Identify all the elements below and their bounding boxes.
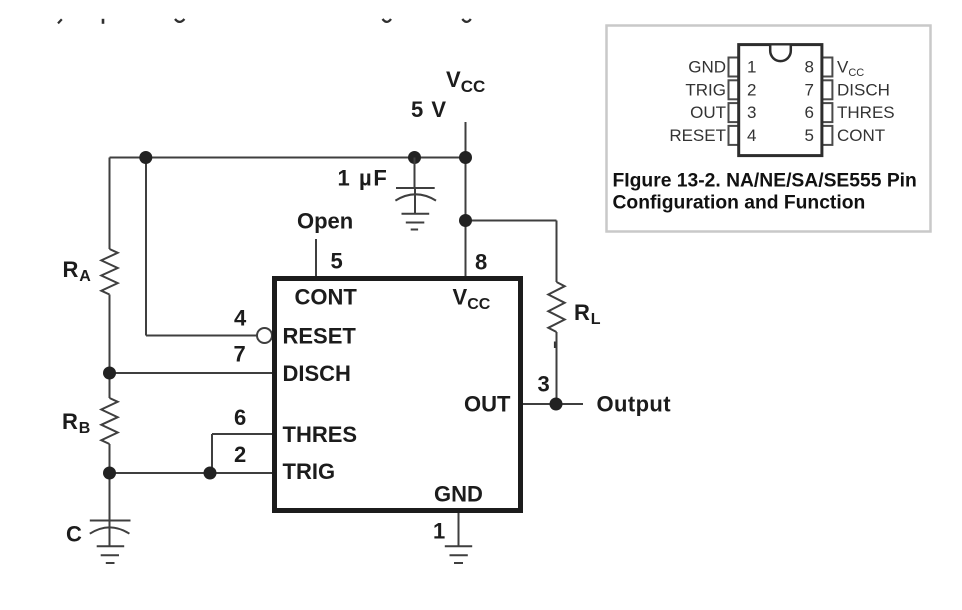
wire RL bottom <box>556 332 558 404</box>
wire reset branch vertical <box>145 158 147 336</box>
capacitor 1uF curved plate <box>395 194 436 200</box>
capacitor 1uF top plate <box>396 187 435 189</box>
svg-text:TRIG: TRIG <box>685 80 726 99</box>
resistor RA <box>101 249 117 295</box>
svg-text:RESET: RESET <box>669 126 726 145</box>
wire reset branch horizontal <box>146 335 257 337</box>
node OUT junction <box>550 398 563 411</box>
svg-text:CONT: CONT <box>837 126 885 145</box>
svg-text:RESET: RESET <box>283 324 357 349</box>
svg-text:8: 8 <box>805 58 814 77</box>
node rl junction <box>459 214 472 227</box>
IC 555 box U1 <box>275 279 521 511</box>
wire top VCC rail <box>110 157 466 159</box>
svg-text:GND: GND <box>434 482 483 507</box>
capacitor 1uF stem <box>414 188 416 214</box>
svg-text:Open: Open <box>297 209 353 234</box>
svg-text:C: C <box>66 522 82 547</box>
svg-text:GND: GND <box>688 58 726 77</box>
ground pin1 <box>445 546 472 563</box>
svg-text:OUT: OUT <box>690 103 726 122</box>
svg-text:2: 2 <box>234 442 246 467</box>
svg-text:1: 1 <box>747 58 756 77</box>
ground under C <box>97 546 125 563</box>
capacitor C top plate <box>90 520 131 522</box>
wire cap branch <box>414 158 416 189</box>
node top-left junction <box>139 151 152 164</box>
svg-text:6: 6 <box>805 103 814 122</box>
resistor RL <box>548 282 564 332</box>
svg-text:DISCH: DISCH <box>837 80 890 99</box>
svg-text:OUT: OUT <box>464 392 511 417</box>
svg-text:3: 3 <box>747 103 756 122</box>
svg-text:5: 5 <box>805 126 814 145</box>
DIP package pin stubs right <box>822 58 833 145</box>
svg-text:6: 6 <box>234 405 246 430</box>
svg-text:7: 7 <box>805 80 814 99</box>
wire THRES-TRIG link <box>211 434 213 473</box>
wire OUT pin3 <box>523 403 583 405</box>
svg-text:5: 5 <box>331 249 343 274</box>
svg-text:4: 4 <box>234 306 247 331</box>
cropped text fragment 5 <box>462 19 471 22</box>
svg-text:7: 7 <box>234 342 246 367</box>
DIP notch <box>770 46 791 62</box>
node TRIG left junction <box>103 467 116 480</box>
wire RL top <box>556 221 558 283</box>
wire left rail upper <box>109 158 111 250</box>
wire VCC drop <box>465 122 467 276</box>
reset bubble <box>257 328 272 343</box>
ground under 1uF <box>402 214 430 230</box>
capacitor C curved plate <box>90 527 130 533</box>
wire TRIG pin2 <box>110 472 273 474</box>
wire RL branch horizontal <box>466 220 557 222</box>
svg-text:DISCH: DISCH <box>283 361 351 386</box>
resistor RB <box>101 398 117 444</box>
node DISCH junction <box>103 367 116 380</box>
DIP package body <box>739 45 822 156</box>
wire DISCH pin7 <box>110 372 273 374</box>
wire left rail lower <box>109 444 111 521</box>
svg-text:1: 1 <box>433 519 445 544</box>
svg-text:2: 2 <box>747 80 756 99</box>
node rail-vcc junction <box>459 151 472 164</box>
node rail-cap junction <box>408 151 421 164</box>
wire pin5 <box>315 239 317 276</box>
pin-config panel frame <box>607 26 931 232</box>
wire RL bottom nub <box>554 342 557 349</box>
svg-text:CONT: CONT <box>295 285 358 310</box>
svg-text:8: 8 <box>475 250 487 275</box>
cropped text fragment 2 <box>102 19 105 24</box>
DIP package pin stubs left <box>729 58 740 145</box>
wire left rail middle <box>109 295 111 399</box>
svg-text:1 µF: 1 µF <box>338 166 389 191</box>
svg-text:Configuration and Function: Configuration and Function <box>613 193 866 214</box>
svg-text:THRES: THRES <box>837 103 895 122</box>
node TRIG mid junction <box>204 467 217 480</box>
svg-text:Output: Output <box>597 392 672 417</box>
svg-text:4: 4 <box>747 126 756 145</box>
svg-text:5 V: 5 V <box>411 97 447 122</box>
svg-text:3: 3 <box>538 372 550 397</box>
svg-text:TRIG: TRIG <box>283 459 336 484</box>
cropped text fragment 1 <box>58 19 62 23</box>
wire pin1 GND <box>458 513 460 546</box>
svg-text:THRES: THRES <box>283 422 358 447</box>
cropped text fragment 3 <box>175 19 184 22</box>
capacitor C stem <box>109 521 111 547</box>
cropped text fragment 4 <box>383 19 392 22</box>
svg-text:FIgure 13-2. NA/NE/SA/SE555 Pi: FIgure 13-2. NA/NE/SA/SE555 Pin <box>613 171 917 192</box>
wire THRES pin6 <box>212 433 272 435</box>
